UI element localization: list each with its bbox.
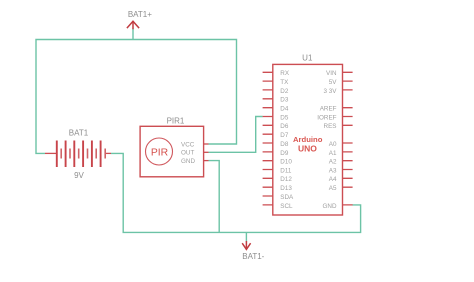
wire PIR GND down to ground net: [209, 161, 220, 233]
svg-text:D10: D10: [280, 159, 292, 166]
svg-text:PIR1: PIR1: [167, 116, 185, 125]
svg-text:D9: D9: [280, 150, 289, 157]
svg-text:D12: D12: [280, 176, 292, 183]
svg-text:D4: D4: [280, 106, 289, 113]
wire BAT1- flag stub: [245, 232, 247, 241]
PIR pin GND lead: [204, 160, 209, 162]
svg-text:D8: D8: [280, 141, 289, 148]
PIR pin VCC lead: [204, 143, 209, 145]
svg-text:3 3V: 3 3V: [324, 88, 338, 95]
svg-text:OUT: OUT: [181, 150, 194, 157]
svg-text:D3: D3: [280, 97, 289, 104]
battery BAT1 right lead: [105, 152, 111, 154]
Arduino U1 right pin leads VIN..GND: [343, 72, 353, 205]
svg-text:A1: A1: [329, 150, 337, 157]
svg-text:SCL: SCL: [280, 203, 293, 210]
svg-text:AREF: AREF: [320, 106, 337, 113]
svg-text:D11: D11: [280, 167, 292, 174]
svg-text:BAT1: BAT1: [69, 129, 89, 138]
svg-text:A0: A0: [329, 141, 337, 148]
Arduino UNO U1 body: [273, 64, 343, 215]
svg-text:5V: 5V: [329, 79, 338, 86]
wire ground net: battery minus, bottom rail, up to Arduino GND: [111, 153, 361, 232]
svg-text:A4: A4: [329, 176, 337, 183]
svg-text:RES: RES: [324, 123, 337, 130]
svg-text:A3: A3: [329, 167, 337, 174]
svg-text:BAT1+: BAT1+: [128, 10, 152, 19]
svg-text:RX: RX: [280, 70, 290, 77]
battery BAT1 long plates: [57, 141, 101, 168]
svg-text:9V: 9V: [74, 171, 84, 180]
svg-text:VCC: VCC: [181, 141, 195, 148]
svg-text:A2: A2: [329, 159, 337, 166]
battery BAT1 left lead: [45, 152, 57, 154]
svg-text:GND: GND: [181, 158, 195, 165]
svg-text:D7: D7: [280, 132, 289, 139]
svg-text:UNO: UNO: [298, 144, 317, 154]
battery BAT1 short plates: [61, 149, 105, 159]
PIR pin OUT lead: [204, 151, 209, 153]
svg-text:VIN: VIN: [326, 70, 337, 77]
wire BAT1+ net: battery plus up, across top, down to PIR VCC: [36, 40, 237, 154]
svg-text:U1: U1: [302, 53, 313, 62]
power flag BAT1+ arrow: [127, 21, 139, 29]
svg-text:A5: A5: [329, 185, 337, 192]
power flag BAT1- arrow: [242, 241, 250, 249]
PIR sensor PIR1 circle: [146, 138, 173, 165]
svg-text:BAT1-: BAT1-: [242, 252, 264, 261]
wire PIR OUT to Arduino D5: [209, 117, 263, 153]
svg-text:SDA: SDA: [280, 194, 294, 201]
svg-text:D13: D13: [280, 185, 292, 192]
svg-text:D2: D2: [280, 88, 289, 95]
svg-text:D5: D5: [280, 114, 289, 121]
battery BAT1: [45, 141, 111, 168]
svg-text:GND: GND: [323, 203, 337, 210]
PIR sensor PIR1 body: [140, 126, 204, 177]
svg-text:D6: D6: [280, 123, 289, 130]
svg-text:IOREF: IOREF: [317, 114, 336, 121]
svg-text:TX: TX: [280, 79, 289, 86]
wire BAT1+ flag stub: [132, 29, 134, 40]
svg-text:PIR: PIR: [151, 147, 169, 158]
Arduino U1 left pin leads RX..SCL: [263, 72, 273, 205]
